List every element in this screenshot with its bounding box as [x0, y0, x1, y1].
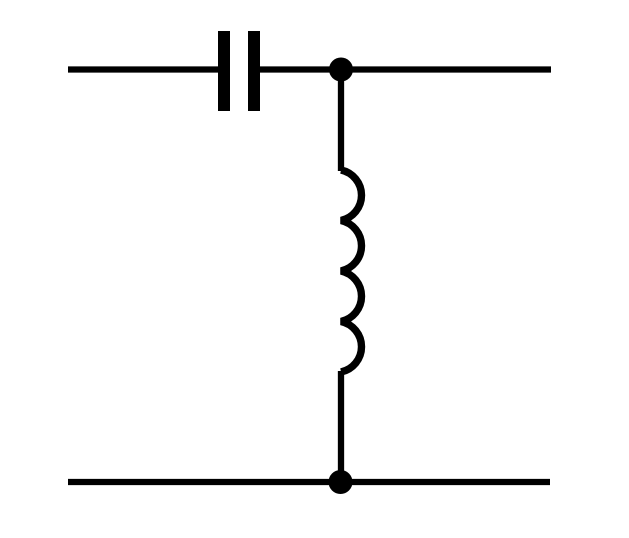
- capacitor C right plate: [248, 31, 260, 111]
- wire: inductor L down to node B: [338, 371, 344, 482]
- capacitor C left plate: [218, 31, 230, 111]
- wire: top rail from capacitor C to node A: [254, 66, 341, 72]
- wire: top rail from node A to output: [341, 66, 551, 72]
- wire: node A down to inductor L: [338, 70, 344, 172]
- wire: bottom rail: [68, 479, 550, 485]
- inductor L (four arcs bulging right): [341, 170, 362, 372]
- node B junction dot (bottom): [329, 470, 353, 494]
- node A junction dot (top): [329, 58, 353, 82]
- wire: top rail left segment (input to capacitor C): [68, 66, 224, 72]
